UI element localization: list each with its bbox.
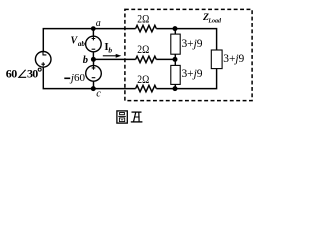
svg-text:j60: j60 bbox=[69, 72, 86, 84]
svg-text:60: 60 bbox=[6, 67, 17, 81]
svg-text:3+j9: 3+j9 bbox=[182, 38, 203, 50]
svg-text:ab: ab bbox=[78, 40, 86, 48]
svg-text:b: b bbox=[83, 55, 88, 66]
svg-text:b: b bbox=[108, 45, 112, 54]
svg-text:2Ω: 2Ω bbox=[137, 74, 149, 86]
svg-text:c: c bbox=[96, 88, 101, 99]
svg-text:3+j9: 3+j9 bbox=[182, 68, 203, 80]
svg-text:3+j9: 3+j9 bbox=[223, 53, 244, 65]
svg-text:a: a bbox=[96, 18, 101, 29]
svg-text:2Ω: 2Ω bbox=[137, 14, 149, 26]
svg-text:2Ω: 2Ω bbox=[137, 44, 149, 56]
svg-text:30: 30 bbox=[27, 67, 38, 81]
svg-text:Load: Load bbox=[207, 18, 222, 24]
